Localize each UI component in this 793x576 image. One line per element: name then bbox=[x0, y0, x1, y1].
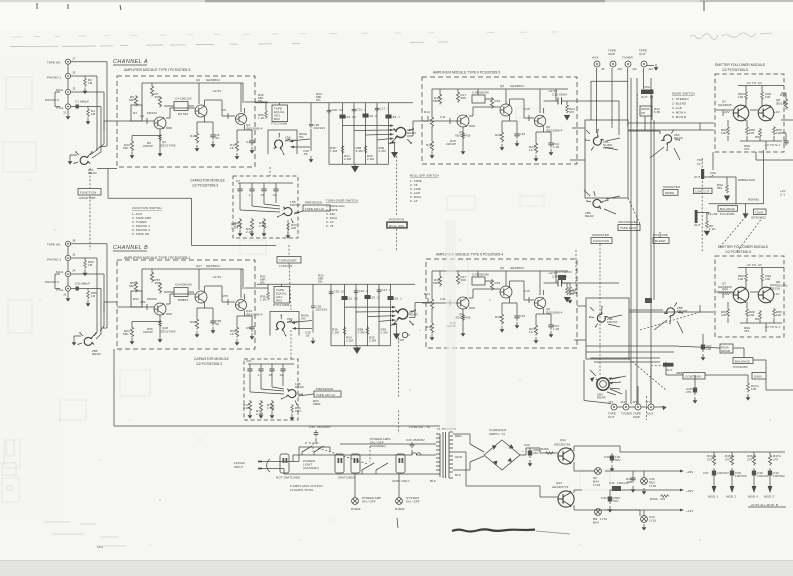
rotary right (lower) 25B bbox=[662, 302, 685, 324]
emitter resistor R8J bbox=[759, 128, 762, 137]
function rotary switch 25B REAR bbox=[78, 332, 97, 345]
svg-text:470: 470 bbox=[572, 291, 578, 295]
svg-text:6- 78: 6- 78 bbox=[326, 224, 334, 228]
EQ bottom bus bbox=[329, 163, 389, 165]
mode rotary right 25A REAR bbox=[659, 129, 682, 151]
amp II A input parts bbox=[422, 116, 457, 124]
AC outlet ampl only bbox=[396, 454, 405, 473]
transistor Q18 bbox=[154, 303, 166, 315]
jack at left margin (to amp III B) bbox=[402, 332, 410, 337]
lamp C34 bbox=[641, 516, 648, 523]
svg-text:R28A: R28A bbox=[541, 447, 549, 451]
svg-text:J11: J11 bbox=[632, 67, 637, 71]
Q6 emitter network bbox=[536, 127, 551, 142]
svg-text:(GANGED): (GANGED) bbox=[370, 444, 386, 448]
series resistor R28A bbox=[545, 452, 554, 455]
cap module B bottom resistors bbox=[248, 400, 251, 412]
svg-text:OUT: OUT bbox=[641, 95, 648, 99]
svg-text:270: 270 bbox=[686, 390, 692, 394]
squiggle scan artifact bbox=[452, 529, 535, 531]
svg-text:-2V TO N.J: -2V TO N.J bbox=[764, 143, 780, 147]
dashed stem turnover bbox=[288, 245, 290, 256]
rail arrows +23V bbox=[680, 470, 684, 512]
svg-text:CONTOUR: CONTOUR bbox=[685, 375, 702, 379]
amp II A top bus bbox=[432, 89, 568, 116]
svg-text:-22.5V: -22.5V bbox=[212, 89, 221, 93]
wires in mode enclosure bbox=[570, 123, 714, 214]
faint bleed-through outlines bbox=[2, 77, 610, 502]
svg-text:OUT: OUT bbox=[666, 368, 673, 372]
output load resistors (amp II) bbox=[566, 104, 569, 113]
svg-text:100: 100 bbox=[765, 95, 771, 99]
svg-text:270: 270 bbox=[747, 458, 753, 462]
svg-text:C31A: C31A bbox=[601, 496, 609, 500]
top terminal drops bbox=[591, 66, 654, 134]
cap module B rotary switch bbox=[281, 387, 303, 406]
capacitor C4 (amp A) bbox=[174, 102, 188, 111]
svg-text:1740/395: 1740/395 bbox=[279, 264, 293, 268]
svg-text:PHONO 2: PHONO 2 bbox=[45, 280, 59, 284]
Q19 emitter network bbox=[237, 311, 252, 326]
svg-text:1K: 1K bbox=[230, 332, 234, 336]
svg-text:GES17405: GES17405 bbox=[160, 144, 176, 148]
svg-text:50: 50 bbox=[216, 322, 220, 326]
svg-text:R180Z: R180Z bbox=[351, 507, 361, 511]
svg-text:R19: R19 bbox=[495, 99, 501, 103]
dashed drop into lower selector bbox=[575, 250, 577, 296]
svg-text:GES5804: GES5804 bbox=[510, 84, 524, 88]
transistor Q19 bbox=[235, 299, 246, 310]
svg-text:FUNCTION SWITCH: FUNCTION SWITCH bbox=[132, 206, 162, 210]
BALANCE boxed label (lower) bbox=[733, 358, 753, 364]
PS output rails bbox=[605, 446, 785, 516]
pilot lamp SP bbox=[595, 468, 602, 475]
amplifier module type II ch A bbox=[422, 71, 577, 165]
svg-text:NOT SWITCHED: NOT SWITCHED bbox=[276, 476, 301, 480]
pilot lamp BR bbox=[595, 509, 602, 516]
svg-text:10K: 10K bbox=[751, 387, 757, 391]
svg-text:220/6P: 220/6P bbox=[143, 330, 153, 334]
svg-text:1/2 PCS3I7308-3: 1/2 PCS3I7308-3 bbox=[196, 362, 222, 366]
svg-text:-2V TO -2V: -2V TO -2V bbox=[746, 81, 762, 85]
svg-text:TAPE ADJ HI: TAPE ADJ HI bbox=[305, 207, 324, 211]
svg-text:J1: J1 bbox=[63, 111, 67, 115]
svg-text:BA4: BA4 bbox=[593, 521, 599, 525]
small top ticks bbox=[37, 1, 704, 11]
svg-text:220/6P: 220/6P bbox=[446, 142, 456, 146]
svg-text:CROSSOVER: CROSSOVER bbox=[618, 220, 639, 224]
svg-text:C5A: C5A bbox=[644, 85, 650, 89]
svg-text:TURNOVER: TURNOVER bbox=[279, 259, 297, 263]
svg-text:FUNCTION: FUNCTION bbox=[80, 191, 96, 195]
svg-text:GRSUP: GRSUP bbox=[744, 178, 755, 182]
wire jack bundle ch A bbox=[71, 62, 107, 152]
svg-text:SWITCHED: SWITCHED bbox=[338, 476, 356, 480]
svg-text:FUNCTION: FUNCTION bbox=[593, 239, 609, 243]
svg-text:GRN: GRN bbox=[455, 455, 462, 459]
coupling Q5->Q6 bbox=[510, 99, 535, 121]
FUNCTION SWITCH legend bbox=[132, 206, 162, 236]
emitter follower module (bottom) box bbox=[715, 256, 784, 337]
svg-text:1.2M: 1.2M bbox=[330, 149, 337, 153]
svg-text:PCS3I308: PCS3I308 bbox=[653, 233, 668, 237]
resistor R19 (amp II A) bbox=[490, 97, 493, 109]
svg-text:470: 470 bbox=[569, 110, 575, 114]
bottom terminal AUX bbox=[648, 404, 654, 410]
svg-text:2.2M: 2.2M bbox=[379, 149, 386, 153]
resistor R2 1M on phono1 bbox=[84, 78, 87, 87]
svg-text:100/50V: 100/50V bbox=[735, 474, 747, 478]
resistor R9 (amp A) bbox=[158, 96, 161, 108]
svg-text:10K: 10K bbox=[721, 131, 727, 135]
svg-text:BLK: BLK bbox=[455, 473, 461, 477]
resistor R43 at rotary (cap A) bbox=[287, 222, 290, 231]
svg-text:OUT: OUT bbox=[639, 52, 646, 56]
svg-text:7AG - 3A: 7AG - 3A bbox=[417, 425, 430, 429]
lower cluster wires bbox=[666, 346, 793, 390]
capacitor C56 (amp B) bbox=[210, 318, 215, 326]
resistor R12 output load (amp A) bbox=[245, 101, 248, 103]
svg-text:AMP: AMP bbox=[633, 415, 640, 419]
coupling Q2->Q3 bbox=[205, 100, 236, 119]
svg-text:10 AMPS TOTAL: 10 AMPS TOTAL bbox=[290, 488, 314, 492]
wire into bottom module bbox=[629, 305, 714, 312]
turnover rotary (ch A) bbox=[272, 133, 291, 155]
wire module top output to right edge bbox=[756, 120, 793, 160]
svg-text:LY16: LY16 bbox=[649, 519, 656, 523]
svg-text:5%: 5% bbox=[316, 98, 321, 102]
svg-text:6- TAPE HD: 6- TAPE HD bbox=[132, 232, 150, 236]
power main wires bbox=[270, 444, 436, 474]
svg-text:1/2 PCS3I7308-3: 1/2 PCS3I7308-3 bbox=[192, 184, 218, 188]
svg-text:LY16: LY16 bbox=[649, 484, 656, 488]
svg-text:REAR: REAR bbox=[295, 385, 304, 389]
svg-text:CRS3I7305: CRS3I7305 bbox=[79, 196, 96, 200]
dashed link into cap module B bbox=[290, 330, 292, 359]
svg-text:2.2M: 2.2M bbox=[344, 157, 351, 161]
svg-text:BALANCE: BALANCE bbox=[735, 359, 750, 363]
svg-text:J2: J2 bbox=[63, 293, 67, 297]
ROLL OFF SWITCH legend bbox=[410, 174, 439, 204]
svg-text:C17 .1: C17 .1 bbox=[380, 107, 390, 111]
svg-text:100/50V: 100/50V bbox=[773, 474, 785, 478]
svg-text:TUNER: TUNER bbox=[621, 412, 633, 416]
channel A heading bbox=[113, 59, 148, 65]
svg-text:C5: C5 bbox=[222, 108, 226, 112]
svg-text:.005: .005 bbox=[626, 480, 632, 484]
wire cap B right stub bbox=[298, 394, 314, 396]
capacitor C27 (right, vertical dark) bbox=[701, 342, 705, 352]
collector resistor C8H bbox=[761, 91, 764, 100]
svg-text:R54: R54 bbox=[133, 297, 139, 301]
coupling Q1->Q2 bbox=[166, 108, 195, 128]
svg-text:Q5: Q5 bbox=[500, 84, 504, 88]
svg-text:.1: .1 bbox=[248, 193, 251, 197]
svg-text:39K: 39K bbox=[155, 95, 161, 99]
emitter resistor R84 bbox=[727, 126, 730, 135]
svg-text:5%: 5% bbox=[299, 135, 304, 139]
amp B output wire bbox=[245, 288, 269, 299]
ground right of aux terminal bbox=[662, 406, 667, 411]
capacitor C51 xtal inline (ch B) bbox=[76, 287, 79, 291]
capacitor C14 (amp II A) bbox=[472, 95, 485, 103]
top speckle rows bbox=[10, 42, 448, 47]
ground at function switch B bbox=[72, 339, 77, 346]
transistor Q7 bbox=[733, 105, 749, 121]
svg-text:1.2K: 1.2K bbox=[258, 116, 265, 120]
svg-text:GRD3I652: GRD3I652 bbox=[751, 216, 766, 220]
emitter module top bus bbox=[738, 86, 784, 92]
svg-text:C31 .1: C31 .1 bbox=[357, 108, 367, 112]
svg-text:C7: C7 bbox=[236, 179, 240, 183]
svg-text:MOD 1: MOD 1 bbox=[708, 495, 718, 499]
svg-text:BLK: BLK bbox=[430, 479, 436, 483]
svg-text:.05/200: .05/200 bbox=[146, 111, 157, 115]
svg-text:.05/600V: .05/600V bbox=[412, 438, 425, 442]
cap C31A bbox=[608, 494, 612, 504]
svg-text:FRONT: FRONT bbox=[290, 203, 301, 207]
svg-text:UP: UP bbox=[641, 111, 645, 115]
amp A top bus bbox=[142, 83, 243, 119]
capacitor C6 (amp A) bbox=[210, 132, 215, 140]
EQ bus (output line) bbox=[255, 102, 413, 104]
bottom terminal TUNER bbox=[623, 404, 629, 410]
svg-text:PVC3I380: PVC3I380 bbox=[720, 212, 735, 216]
svg-text:C1: C1 bbox=[75, 100, 79, 104]
svg-text:470: 470 bbox=[744, 147, 750, 151]
dashed stem from function switch bbox=[89, 168, 91, 188]
mode selector enclosure (upper) bbox=[585, 120, 628, 198]
resistor R55 (amp B) bbox=[134, 281, 137, 293]
svg-text:-22.5V: -22.5V bbox=[212, 275, 221, 279]
cap module B top bus bbox=[248, 364, 294, 366]
capacitor C64 (cap B) bbox=[280, 366, 285, 374]
svg-text:TO8: TO8 bbox=[398, 338, 404, 342]
transistor Q5 bbox=[500, 104, 512, 116]
amp III B internals bbox=[422, 266, 619, 344]
svg-text:REAR: REAR bbox=[674, 136, 683, 140]
svg-text:1.5M: 1.5M bbox=[267, 406, 274, 410]
GAIN boxed label (top) bbox=[754, 209, 767, 215]
amp B top bus bbox=[142, 269, 243, 305]
svg-text:R16: R16 bbox=[426, 143, 432, 147]
output filter column MOD4 bbox=[753, 452, 755, 454]
dashed diagonals to lower controls bbox=[720, 215, 747, 247]
output filter column MOD3 bbox=[769, 452, 771, 454]
transistor Q17 bbox=[195, 291, 207, 303]
svg-text:GAIN: GAIN bbox=[754, 375, 762, 379]
junction blob bbox=[645, 298, 652, 303]
svg-text:PHONO 1: PHONO 1 bbox=[47, 258, 61, 262]
svg-text:EMITTER FOLLOWER MODULE: EMITTER FOLLOWER MODULE bbox=[715, 63, 766, 67]
capacitor C41 (cap A) bbox=[237, 186, 242, 194]
svg-text:GES3I6755: GES3I6755 bbox=[554, 443, 571, 447]
capacitor C7 (amp A) bbox=[249, 138, 254, 146]
svg-text:C26: C26 bbox=[524, 443, 530, 447]
cap module A rotary switch bbox=[277, 205, 299, 224]
svg-text:+5: +5 bbox=[710, 174, 714, 178]
emitter resistor R16 (amp II A) bbox=[430, 140, 433, 152]
resistor R57 (amp B) bbox=[150, 271, 153, 283]
transistor Q2 bbox=[195, 105, 207, 117]
svg-text:6- LP: 6- LP bbox=[410, 199, 418, 203]
resistor R20 (amp II A) bbox=[500, 131, 503, 143]
arrows into turnover rotary bbox=[290, 139, 310, 147]
wires lower enclosure bbox=[574, 306, 683, 394]
scan speckles bbox=[30, 140, 771, 546]
svg-text:REAR: REAR bbox=[88, 171, 97, 175]
Q17 emitter parts bbox=[197, 303, 213, 318]
svg-text:SBB: SBB bbox=[676, 371, 682, 375]
resistor R75 at rotary (cap B) bbox=[291, 404, 294, 413]
resistor R15 (amp II A) bbox=[438, 93, 441, 105]
svg-text:.1: .1 bbox=[257, 373, 260, 377]
svg-text:Q32: Q32 bbox=[560, 438, 566, 442]
MODE SWITCH legend bbox=[672, 92, 695, 120]
svg-text:C30A: C30A bbox=[604, 455, 612, 459]
svg-text:C11: C11 bbox=[440, 115, 446, 119]
L-wire function A to channel B area bbox=[108, 169, 276, 246]
dashed stem from FUNCTION box down bbox=[599, 244, 601, 375]
svg-text:1.25: 1.25 bbox=[553, 145, 559, 149]
BALANCE boxed label bbox=[718, 206, 738, 212]
svg-text:OUT: OUT bbox=[608, 415, 615, 419]
svg-text:270: 270 bbox=[725, 458, 731, 462]
svg-text:APC: APC bbox=[295, 409, 302, 413]
lower selector enclosure bbox=[586, 298, 629, 359]
svg-text:AMPLIFIER MODULE TYPE I PC: AMPLIFIER MODULE TYPE I PCS3I7305-3 bbox=[124, 68, 190, 72]
center vertical buses bbox=[631, 78, 654, 404]
svg-text:C57: C57 bbox=[246, 326, 252, 330]
filter cap C26 bbox=[528, 448, 532, 458]
transistor Q8 bbox=[758, 105, 774, 121]
Q2 emitter parts bbox=[197, 117, 213, 132]
svg-text:680pF: 680pF bbox=[81, 282, 90, 286]
AC outlet (not switched) bbox=[280, 454, 289, 473]
svg-text:+5.2: +5.2 bbox=[97, 545, 103, 549]
svg-text:PRESENCE: PRESENCE bbox=[316, 387, 333, 391]
svg-text:LY16: LY16 bbox=[600, 517, 607, 521]
cap C24 bbox=[630, 475, 635, 483]
svg-text:INPUT: INPUT bbox=[234, 465, 244, 469]
svg-text:GES9905: GES9905 bbox=[718, 103, 732, 107]
svg-text:REAR: REAR bbox=[585, 214, 594, 218]
capacitor C44 (cap A) bbox=[273, 186, 278, 194]
resistor R23 (amp II A) bbox=[534, 142, 537, 154]
TURN OVER SWITCH legend bbox=[326, 199, 358, 229]
svg-text:2- BLEND: 2- BLEND bbox=[672, 102, 687, 106]
cap module A top bus bbox=[238, 183, 293, 186]
svg-text:100/6V: 100/6V bbox=[562, 270, 572, 274]
turnover switch wafer outline bbox=[268, 130, 297, 154]
svg-text:C18 .1: C18 .1 bbox=[391, 115, 401, 119]
bottom terminal TAPE OUT bbox=[611, 404, 617, 410]
svg-text:TAPE HD: TAPE HD bbox=[47, 243, 61, 247]
output filter column MOD1 bbox=[713, 452, 715, 454]
svg-text:270: 270 bbox=[707, 458, 713, 462]
pilot lamp SYSTEM bbox=[396, 498, 403, 505]
capacitor C17 (amp II A) bbox=[548, 140, 553, 148]
capacitor C61 (cap B) bbox=[247, 366, 252, 374]
dashed link amp A to cap module A bbox=[269, 167, 271, 176]
svg-text:50V: 50V bbox=[613, 499, 619, 503]
svg-text:AUX: AUX bbox=[592, 56, 598, 60]
capacitor module ch A box bbox=[233, 176, 298, 238]
svg-text:J4: J4 bbox=[72, 269, 76, 273]
GAIN boxed label (lower) bbox=[752, 373, 766, 380]
svg-text:C15: C15 bbox=[524, 107, 530, 111]
svg-text:GRAD: GRAD bbox=[721, 349, 731, 353]
transistor Q32 bbox=[558, 448, 574, 464]
EQ network channel B (copy) bbox=[257, 274, 430, 434]
svg-text:GAIN: GAIN bbox=[756, 211, 764, 215]
ground under balance-right bbox=[743, 213, 749, 218]
svg-text:2.2M: 2.2M bbox=[367, 157, 374, 161]
resistor R63 (amp B) bbox=[235, 326, 238, 338]
resistor R47 lower right bbox=[747, 382, 750, 392]
svg-text:TAPE ADJ HI: TAPE ADJ HI bbox=[316, 393, 335, 397]
faint vertical scan streak bbox=[446, 220, 456, 430]
resistor R7 (amp A) bbox=[150, 85, 153, 97]
svg-text:200/5M: 200/5M bbox=[478, 91, 489, 95]
svg-text:GES5804: GES5804 bbox=[206, 78, 220, 82]
channel B heading bbox=[113, 245, 148, 251]
scanner bottom band bbox=[0, 560, 793, 576]
svg-text:+23V: +23V bbox=[686, 470, 694, 474]
resistor R13 (amp A) bbox=[235, 140, 238, 152]
svg-text:10: 10 bbox=[697, 162, 701, 166]
wires to bottom terminals bbox=[584, 360, 662, 407]
Q3 emitter network bbox=[237, 125, 252, 140]
svg-text:.05: .05 bbox=[303, 152, 308, 156]
svg-text:PHONO 2: PHONO 2 bbox=[45, 98, 59, 102]
svg-text:.05/6V: .05/6V bbox=[558, 93, 567, 97]
svg-text:AMPLIFIER MODULE TYPE I PC: AMPLIFIER MODULE TYPE I PCS3I7305-1 bbox=[124, 256, 190, 260]
capacitor C42 (cap A) bbox=[249, 186, 254, 194]
svg-text:50: 50 bbox=[216, 136, 220, 140]
emitter resistor R4 (amp A) bbox=[130, 140, 133, 152]
svg-text:(GANGED): (GANGED) bbox=[303, 466, 319, 470]
svg-text:100: 100 bbox=[738, 95, 744, 99]
roll-off rotary (ch A) bbox=[390, 128, 414, 144]
EQ column 2 bbox=[342, 103, 344, 164]
svg-text:MOD 3: MOD 3 bbox=[764, 495, 774, 499]
svg-text:56K: 56K bbox=[123, 146, 129, 150]
svg-text:LY16: LY16 bbox=[593, 483, 600, 487]
svg-text:J5: J5 bbox=[72, 71, 76, 75]
svg-text:FRONT: FRONT bbox=[607, 320, 618, 324]
capacitor C16 (amp II A) bbox=[514, 131, 519, 139]
svg-text:R9: R9 bbox=[178, 112, 182, 116]
EQ column 3 bbox=[353, 103, 355, 164]
jack MAG (ch B) bbox=[65, 271, 70, 276]
svg-text:PVC3I380: PVC3I380 bbox=[733, 365, 748, 369]
right margin parts (top) bbox=[784, 98, 787, 110]
svg-text:R20: R20 bbox=[495, 133, 501, 137]
resistor R60 (amp B) bbox=[195, 318, 198, 330]
capacitor C43 (cap A) bbox=[261, 186, 266, 194]
svg-text:C37: C37 bbox=[703, 471, 709, 475]
svg-text:2.2M: 2.2M bbox=[243, 406, 250, 410]
capacitor C1 xtal inline bbox=[76, 105, 79, 109]
svg-text:270: 270 bbox=[773, 458, 779, 462]
wires bridge to Q32 bbox=[520, 448, 558, 455]
svg-text:T1: T1 bbox=[437, 427, 441, 431]
svg-text:J14: J14 bbox=[620, 400, 625, 404]
svg-text:25V: 25V bbox=[533, 451, 539, 455]
svg-text:ROLL OFF: ROLL OFF bbox=[389, 224, 404, 228]
EQ column 6 bbox=[388, 103, 390, 164]
